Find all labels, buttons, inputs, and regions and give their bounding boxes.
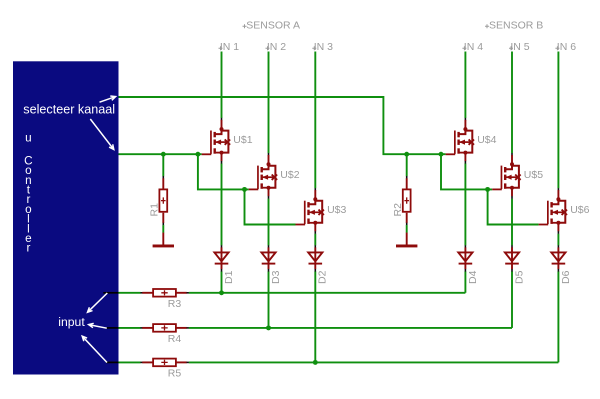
wire IN 2 column seg 3 [268, 271, 270, 328]
wire input row 2 black stub [106, 327, 118, 329]
svg-text:U$3: U$3 [327, 204, 346, 216]
junction D2-row3 [313, 360, 318, 365]
wire IN 3 column seg 1 [314, 52, 316, 189]
junction D3-row2 [266, 325, 271, 330]
svg-text:R4: R4 [168, 333, 182, 345]
transistor U$3 [296, 188, 347, 234]
svg-text:U$6: U$6 [570, 204, 589, 216]
annotation arrow input row 3 to text [82, 336, 107, 362]
transistor U$1 [202, 118, 253, 164]
svg-text:U$2: U$2 [280, 169, 299, 181]
node IN 2 label [266, 46, 270, 50]
ground under R1 [153, 233, 174, 248]
wire input row 2 right [189, 327, 512, 329]
annotation arrow input row 2 to text [89, 323, 107, 328]
junction gate drop left [195, 152, 200, 157]
junction gate drop right 2 [485, 187, 490, 192]
junction gate drop left 2 [242, 187, 247, 192]
diode D6 [551, 245, 572, 284]
uController annotation box [13, 61, 119, 374]
diode D2 [308, 245, 329, 284]
wire IN 3 column seg 2 [314, 234, 316, 246]
node IN 1 label [219, 46, 223, 50]
svg-text:selecteer kanaal: selecteer kanaal [23, 102, 115, 116]
diode D4 [458, 245, 479, 284]
wire IN 1 column seg 3 [221, 271, 223, 292]
svg-text:D4: D4 [467, 270, 479, 284]
svg-text:IN 1: IN 1 [220, 41, 239, 53]
junction D1-row1 [219, 290, 224, 295]
transistor U$4 [446, 118, 497, 164]
node IN 6 label [555, 46, 559, 50]
svg-text:U$4: U$4 [477, 134, 496, 146]
svg-text:U$1: U$1 [233, 134, 252, 146]
resistor R2 [392, 154, 411, 233]
wire input row 3 black stub [106, 361, 119, 363]
wire input row 3 left [119, 361, 141, 363]
wire IN 6 column seg 2 [557, 234, 559, 246]
resistor R1 [148, 154, 167, 233]
svg-text:R3: R3 [168, 298, 182, 310]
wire gate U$2 [198, 154, 249, 189]
svg-text:IN 4: IN 4 [464, 41, 483, 53]
wire IN 2 column seg 1 [268, 52, 270, 154]
wire select A (to group B gates) [119, 97, 446, 154]
wire IN 4 column seg 1 [464, 52, 466, 119]
wire IN 2 column seg 2 [268, 199, 270, 246]
wire IN 1 column seg 1 [221, 52, 223, 119]
node SENSOR A label [243, 24, 247, 28]
wire input row 1 left [119, 292, 141, 294]
svg-text:IN 5: IN 5 [510, 41, 529, 53]
svg-text:input: input [58, 315, 85, 329]
wire gate U$5 [441, 154, 492, 189]
transistor U$2 [249, 153, 300, 199]
wire IN 4 column seg 3 [464, 271, 466, 292]
svg-text:D1: D1 [223, 270, 235, 284]
wire IN 3 column seg 3 [314, 271, 316, 362]
svg-text:U$5: U$5 [524, 169, 543, 181]
resistor R3 [140, 289, 189, 310]
ground under R2 [396, 233, 417, 248]
wire input row 3 right [189, 361, 559, 363]
svg-text:R1: R1 [148, 203, 160, 217]
transistor U$6 [539, 188, 590, 234]
wire IN 1 column seg 2 [221, 164, 223, 246]
wire IN 6 column seg 1 [557, 52, 559, 189]
node IN 3 label [312, 46, 316, 50]
wire IN 5 column seg 2 [511, 199, 513, 246]
diode D3 [261, 245, 282, 284]
wire select B (to U$1 gate) [119, 153, 202, 155]
wire input row 2 left [119, 327, 141, 329]
wire IN 6 column seg 3 [557, 271, 559, 362]
wire gate U$3 [245, 189, 296, 224]
svg-text:IN 2: IN 2 [267, 41, 286, 53]
wire gate U$6 [488, 189, 539, 224]
node IN 5 label [509, 46, 513, 50]
svg-text:D6: D6 [560, 270, 572, 284]
svg-text:u: u [25, 131, 32, 144]
svg-text:IN 3: IN 3 [314, 41, 333, 53]
node IN 4 label [462, 46, 466, 50]
svg-text:IN 6: IN 6 [557, 41, 576, 53]
wire IN 4 column seg 2 [464, 164, 466, 246]
junction R1 tap [161, 152, 166, 157]
svg-text:D5: D5 [513, 270, 525, 284]
svg-text:D3: D3 [270, 270, 282, 284]
resistor R4 [140, 324, 189, 345]
svg-text:SENSOR A: SENSOR A [246, 20, 300, 32]
diode D1 [214, 245, 235, 284]
annotation arrow to select wire B [90, 119, 114, 150]
transistor U$5 [492, 153, 543, 199]
wire input row 1 right [189, 292, 466, 294]
junction R2 tap [404, 152, 409, 157]
annotation text: u Controller (vertical) [24, 131, 32, 254]
svg-text:D2: D2 [317, 270, 329, 284]
svg-text:SENSOR B: SENSOR B [489, 20, 543, 32]
wire IN 5 column seg 3 [511, 271, 513, 328]
wire IN 5 column seg 1 [511, 52, 513, 154]
junction gate drop right [439, 152, 444, 157]
resistor R5 [140, 359, 189, 380]
annotation arrow input row 1 to text [88, 293, 108, 312]
node SENSOR B label [485, 24, 489, 28]
svg-text:R2: R2 [392, 203, 404, 217]
svg-text:r: r [26, 242, 30, 255]
svg-text:R5: R5 [168, 367, 182, 379]
diode D5 [505, 245, 526, 284]
wire input row 1 black stub [103, 292, 118, 294]
annotation arrow to select wire A [100, 96, 116, 102]
